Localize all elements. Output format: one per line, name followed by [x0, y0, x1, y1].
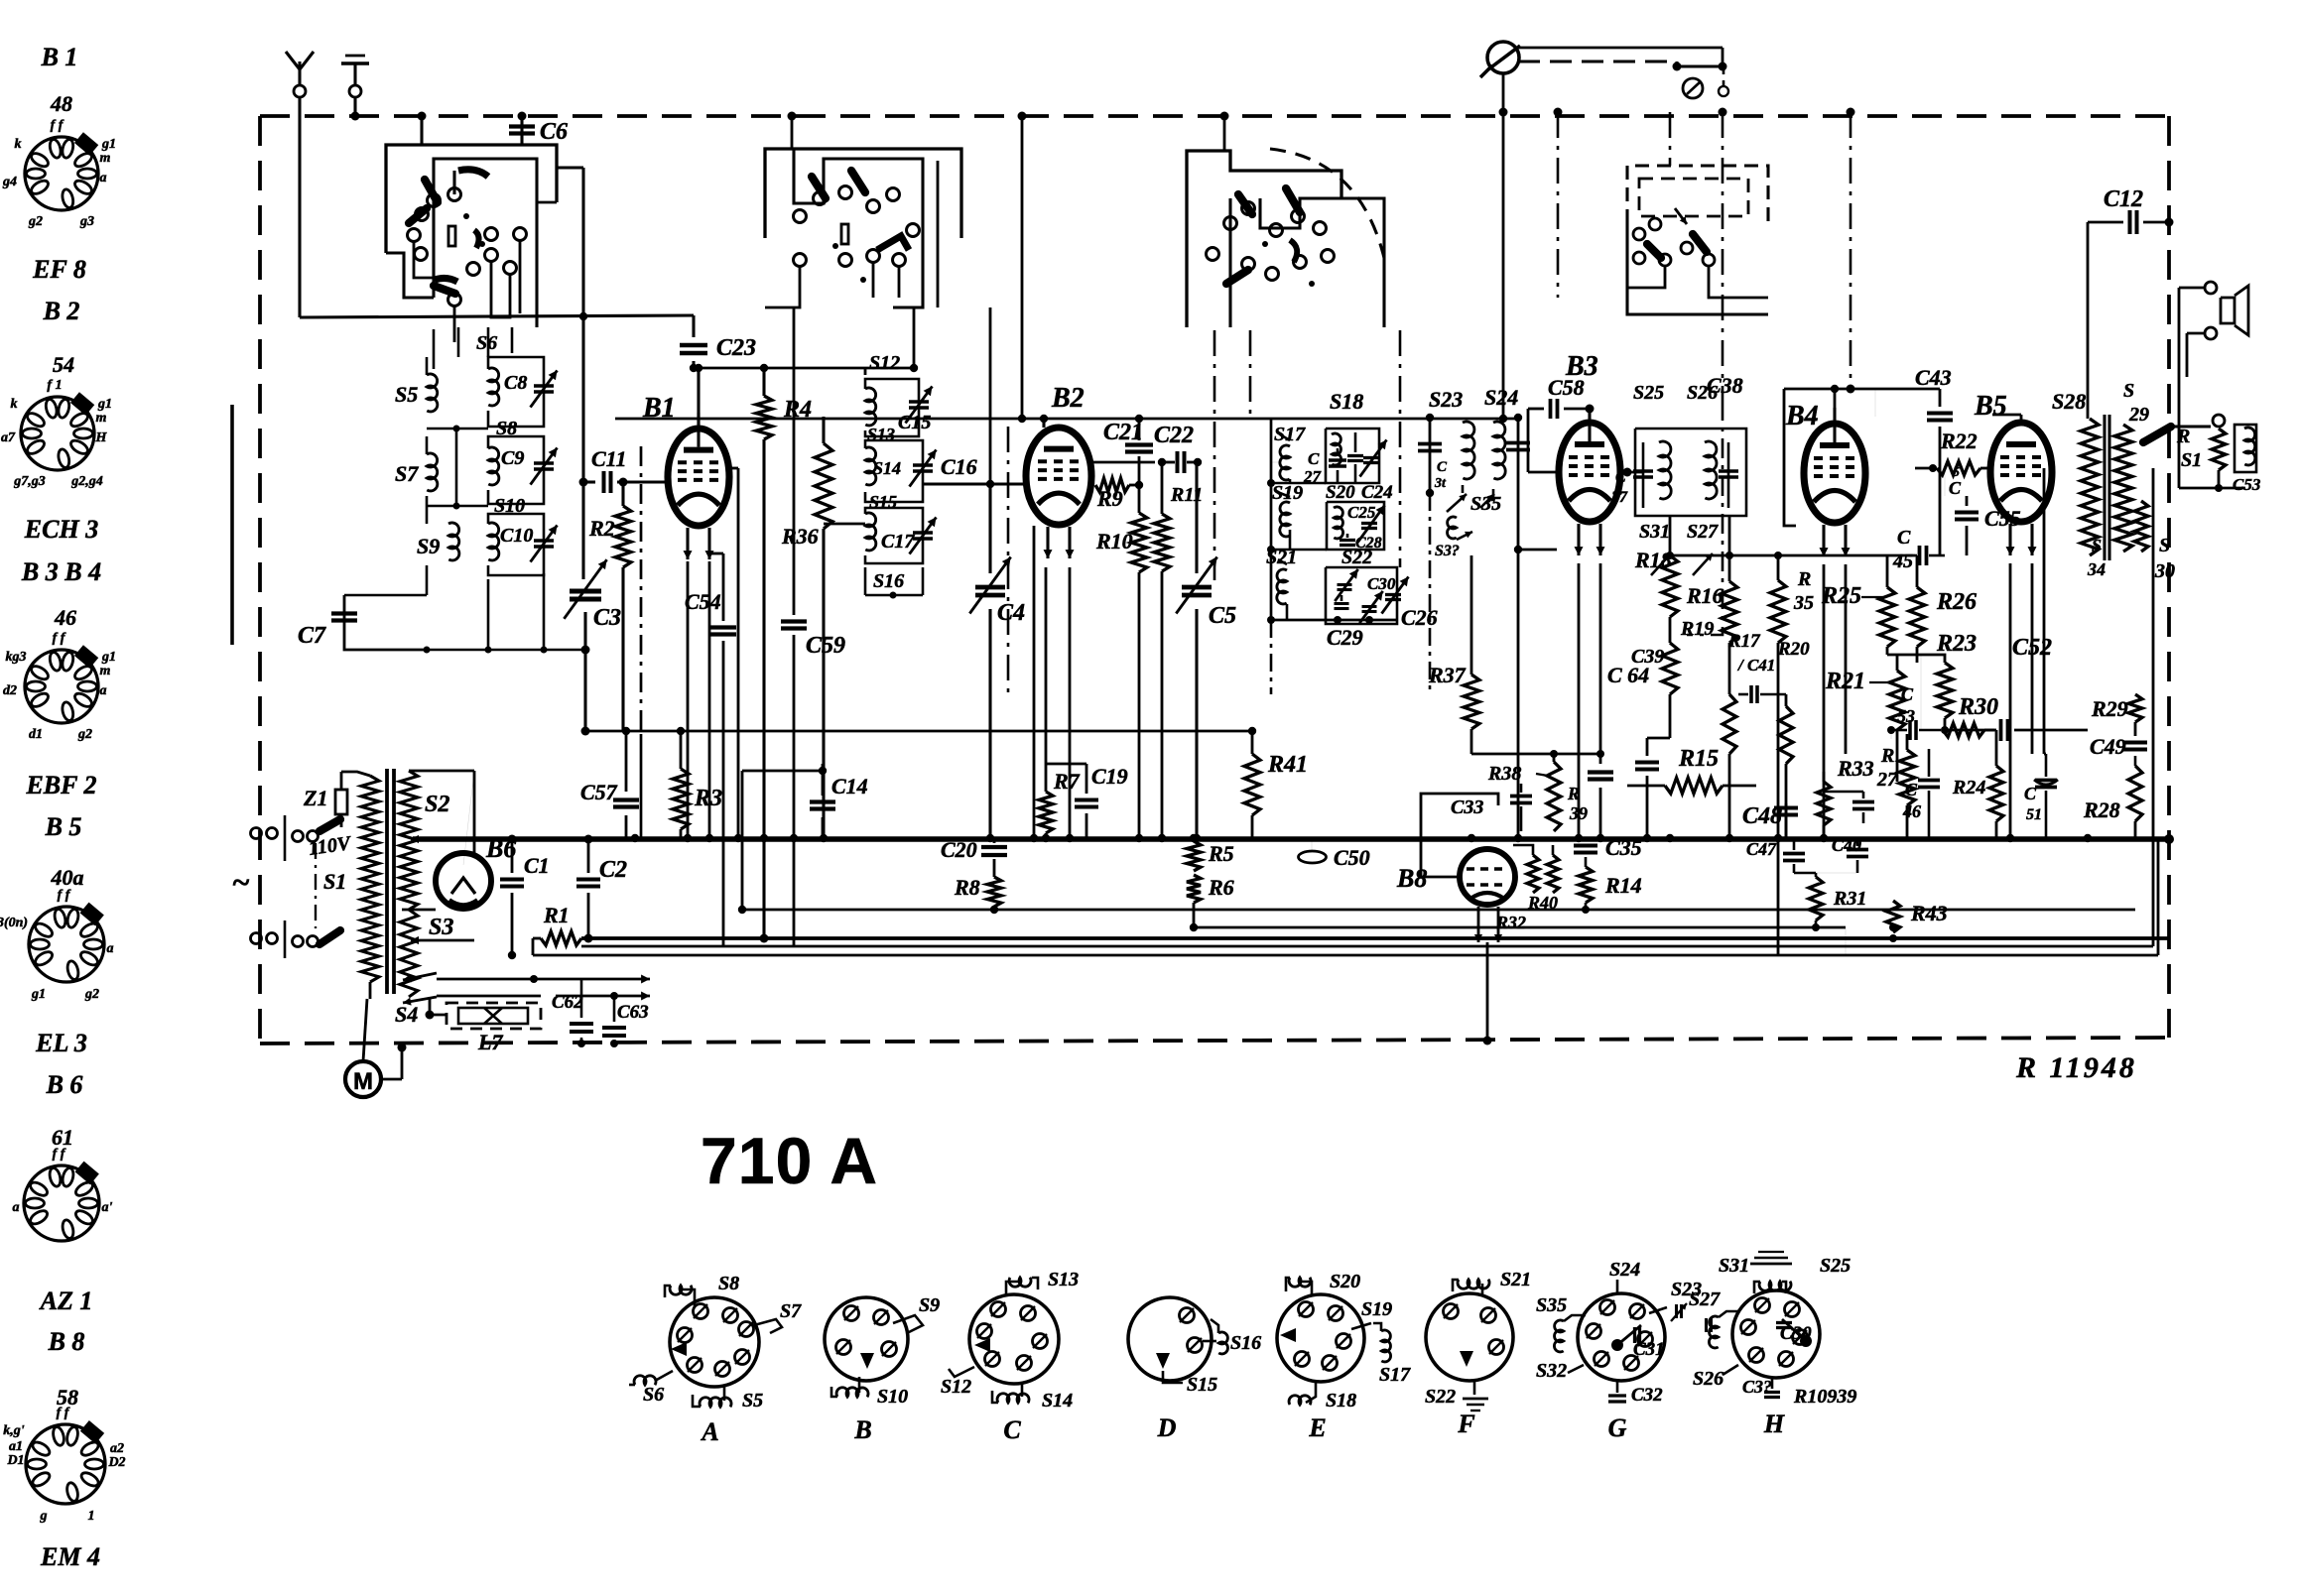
socket F pin arrow: [1460, 1351, 1473, 1367]
resistor R25: [1886, 555, 1889, 587]
socket B coil S10: [858, 1377, 861, 1393]
svg-text:S10: S10: [877, 1386, 908, 1408]
svg-text:S: S: [2092, 536, 2102, 555]
socket C coil S14: [1021, 1383, 1024, 1397]
svg-text:R38: R38: [1487, 763, 1521, 785]
svg-text:B: B: [853, 1415, 871, 1444]
dash-dot drop lines from pickup: [1557, 112, 1560, 298]
svg-text:kg3: kg3: [6, 650, 27, 665]
resistor R15: [1665, 778, 1723, 794]
svg-text:C6: C6: [540, 119, 568, 145]
svg-text:C32: C32: [1631, 1385, 1663, 1406]
svg-text:R31: R31: [1833, 888, 1866, 910]
svg-text:F: F: [1457, 1410, 1474, 1438]
capacitor C52: [1944, 718, 1947, 730]
svg-text:C16: C16: [941, 454, 977, 479]
switch arm flags S-D: [1647, 244, 1661, 258]
svg-text:m: m: [96, 411, 107, 426]
svg-text:D: D: [1157, 1413, 1177, 1442]
capacitor C1: [511, 839, 514, 873]
motor wires: [363, 999, 367, 1061]
svg-text:45: 45: [1892, 551, 1913, 572]
svg-text:S8: S8: [496, 418, 517, 439]
speaker wires: [2179, 287, 2205, 290]
svg-text:B8: B8: [1396, 864, 1427, 893]
socket H coil S27: [1709, 1316, 1719, 1348]
svg-text:40a: 40a: [51, 865, 84, 890]
capacitor C22: [1092, 461, 1155, 464]
svg-text:R19: R19: [1680, 618, 1714, 640]
svg-text:C15: C15: [898, 412, 931, 433]
svg-text:C4: C4: [997, 600, 1025, 626]
capacitor C2: [587, 839, 590, 873]
svg-text:B2: B2: [1051, 383, 1085, 414]
svg-text:R7: R7: [1053, 769, 1081, 794]
svg-text:ECH 3: ECH 3: [24, 515, 98, 544]
wire border to B2: [1021, 116, 1024, 419]
chassis dashed border: [260, 114, 2169, 118]
svg-text:S3?: S3?: [1435, 543, 1460, 559]
svg-text:S35: S35: [1470, 493, 1501, 515]
svg-text:S26: S26: [1693, 1368, 1723, 1390]
svg-text:S17: S17: [1274, 424, 1306, 445]
svg-text:EF 8: EF 8: [32, 255, 86, 284]
fuse Z1: [335, 790, 347, 814]
svg-text:S8: S8: [718, 1273, 739, 1294]
variable capacitor C3: [570, 589, 601, 594]
socket H top coil S25 with screen: [1759, 1282, 1791, 1291]
svg-text:54: 54: [53, 352, 74, 377]
earth wire to chassis: [353, 97, 356, 116]
socket base B1 (48): [25, 137, 98, 210]
svg-text:C23: C23: [716, 335, 756, 361]
svg-text:C1: C1: [524, 853, 550, 878]
output transformer secondary S34: [2134, 501, 2148, 552]
wire border to switch S-B: [791, 116, 794, 149]
svg-text:C: C: [1437, 459, 1448, 475]
switch arm flags S-C: [1238, 194, 1252, 214]
coil S19: [1280, 502, 1290, 537]
coil S17: [1280, 445, 1290, 480]
svg-text:1: 1: [88, 1509, 95, 1524]
svg-text:C14: C14: [831, 774, 868, 798]
oscillator coil box 3 C30 C26: [1326, 567, 1397, 624]
svg-text:C7: C7: [298, 623, 326, 649]
svg-text:S24: S24: [1609, 1259, 1640, 1281]
socket detail C: [969, 1294, 1059, 1384]
svg-text:S12: S12: [869, 352, 900, 374]
svg-text:C19: C19: [1091, 764, 1128, 789]
resistor R26: [1916, 555, 1919, 587]
svg-text:R: R: [1797, 568, 1811, 590]
svg-text:S27: S27: [1689, 1289, 1721, 1310]
svg-text:S: S: [2159, 535, 2170, 556]
svg-text:f f: f f: [57, 1406, 70, 1420]
svg-text:R32: R32: [1495, 913, 1526, 932]
svg-text:5: 5: [1953, 465, 1960, 480]
svg-text:48: 48: [50, 91, 72, 116]
svg-text:R15: R15: [1678, 746, 1719, 772]
coil S9: [448, 523, 459, 560]
svg-text:C53: C53: [2233, 475, 2261, 494]
socket C pin arrow: [974, 1338, 990, 1352]
socket base B8 (58): [26, 1424, 105, 1504]
secondary taps: [409, 770, 474, 773]
svg-text:E: E: [1308, 1413, 1326, 1442]
svg-text:S17: S17: [1379, 1364, 1411, 1386]
wire C3 to bottom: [583, 612, 586, 650]
wire y560 row: [1670, 554, 1915, 557]
heater line 1: [581, 936, 2169, 940]
B8 wire down to chassis: [1486, 942, 1489, 1041]
svg-text:R20: R20: [1777, 639, 1810, 660]
IF coil S26: [1705, 441, 1717, 499]
coil S12 with trimmer C15: [865, 388, 876, 426]
S-D wiring: [1709, 266, 1768, 298]
svg-text:f f: f f: [51, 118, 64, 133]
svg-text:g4: g4: [2, 175, 17, 189]
svg-text:a1: a1: [9, 1439, 23, 1454]
tube B8: [1460, 849, 1515, 905]
misc vertical wires: [582, 315, 585, 317]
resistor R7: [1045, 764, 1048, 792]
capacitor C43: [1939, 389, 1942, 407]
speaker terminals: [2205, 282, 2217, 294]
svg-text:B4: B4: [1785, 401, 1819, 431]
svg-text:C10: C10: [500, 525, 533, 547]
waveband switch unit S-B: [765, 149, 961, 238]
socket A pin arrow: [671, 1342, 687, 1356]
svg-text:d2: d2: [3, 683, 17, 698]
svg-text:R43: R43: [1910, 901, 1948, 925]
svg-text:a: a: [100, 683, 107, 698]
coil block C stub wires: [1280, 434, 1290, 440]
svg-text:g1: g1: [97, 397, 112, 412]
wire top border to switch: [420, 116, 423, 145]
capacitor C63: [613, 996, 616, 1022]
svg-text:R29: R29: [2091, 696, 2128, 721]
coil block C left bus: [1270, 418, 1273, 620]
socket E coil S17: [1381, 1330, 1391, 1362]
svg-text:R8: R8: [954, 875, 980, 900]
resistor R41: [1251, 731, 1254, 754]
capacitor C62: [580, 979, 583, 1018]
svg-text:EL 3: EL 3: [35, 1029, 87, 1057]
svg-text:S5: S5: [395, 382, 418, 407]
svg-text:g3: g3: [79, 214, 94, 229]
svg-text:R10939: R10939: [1793, 1386, 1856, 1408]
svg-text:R22: R22: [1940, 429, 1978, 453]
transformer core: [385, 769, 389, 994]
motor M: [345, 1061, 381, 1097]
svg-text:R33: R33: [1837, 756, 1874, 781]
svg-text:C39: C39: [1631, 646, 1664, 668]
socket B pin arrow: [860, 1353, 874, 1369]
svg-text:EBF 2: EBF 2: [25, 771, 96, 799]
capacitor C50: [1299, 851, 1327, 863]
S31 S27 trimmer arrows: [1651, 553, 1671, 575]
resistor R14: [1579, 867, 1593, 903]
wire pickup to detector: [1502, 112, 1505, 419]
capacitor C11: [583, 480, 595, 483]
socket detail G: [1578, 1293, 1665, 1381]
capacitor C37: [1642, 442, 1645, 508]
tube B1: [668, 429, 729, 526]
resistor R1: [533, 937, 541, 940]
svg-text:C62: C62: [552, 992, 583, 1013]
svg-text:C30: C30: [1780, 1323, 1812, 1344]
svg-text:R17: R17: [1727, 631, 1761, 652]
socket A tab S7: [754, 1319, 782, 1333]
svg-text:S4: S4: [395, 1002, 418, 1027]
svg-text:S6: S6: [643, 1384, 664, 1406]
IF coil S25: [1659, 441, 1671, 499]
svg-text:S18: S18: [1330, 389, 1363, 414]
S23 S24 core dashes: [1429, 493, 1432, 694]
svg-text:g1: g1: [31, 987, 46, 1002]
waveband switch unit S-A: [386, 145, 557, 253]
socket base B2 (54): [21, 397, 94, 470]
svg-text:C5: C5: [1209, 603, 1236, 629]
svg-text:R: R: [1567, 784, 1580, 803]
svg-text:a2: a2: [110, 1441, 124, 1456]
socket G S23 trimmer: [1649, 1307, 1667, 1313]
svg-text:C: C: [1905, 780, 1918, 799]
svg-text:d1: d1: [29, 727, 43, 742]
svg-text:C30: C30: [1367, 574, 1396, 593]
resistor R33: [1823, 772, 1826, 782]
svg-text:S: S: [2123, 380, 2134, 402]
capacitor C6: [520, 116, 523, 145]
coil S6 with trimmer C8: [488, 368, 499, 406]
B4 frame wire: [1784, 389, 1796, 526]
svg-text:B 8: B 8: [48, 1327, 85, 1356]
tube B5: [1990, 423, 2052, 522]
resistor R8: [987, 877, 1001, 907]
B2 cathode wires: [1045, 567, 1048, 764]
dash-dot gang line right: [1850, 112, 1852, 389]
svg-text:g2,g4: g2,g4: [70, 474, 103, 489]
svg-text:30: 30: [2154, 560, 2175, 582]
svg-text:g2: g2: [28, 214, 43, 229]
capacitor C36 (right): [1727, 442, 1730, 508]
socket base B3/B4 (46): [25, 650, 98, 723]
speaker: [2221, 298, 2234, 323]
wire oscillator line: [581, 168, 584, 579]
svg-text:35: 35: [1793, 592, 1814, 614]
long signal wire y422: [615, 418, 1518, 421]
svg-text:g1: g1: [101, 137, 116, 152]
resistor R4: [762, 368, 765, 396]
socket G S24 lead: [1616, 1280, 1619, 1293]
B6 anode wires: [473, 771, 476, 855]
socket E pin arrow: [1280, 1328, 1296, 1342]
svg-text:S31: S31: [1639, 521, 1670, 543]
svg-text:B5: B5: [1974, 391, 2007, 422]
resistor R16: [1728, 516, 1731, 581]
resistor R19: [1669, 635, 1672, 643]
coil S13 S14 with trimmer C16: [865, 447, 876, 485]
capacitor C20: [993, 838, 996, 843]
transformer secondary S3: [400, 910, 418, 997]
socket detail D: [1128, 1297, 1212, 1381]
svg-text:C22: C22: [1154, 423, 1194, 448]
svg-text:S5: S5: [742, 1390, 763, 1412]
socket D pin arrow: [1156, 1353, 1170, 1369]
wire antenna-C23 horizontal: [300, 315, 694, 317]
resistor R2: [621, 482, 624, 506]
svg-text:R26: R26: [1936, 589, 1977, 615]
variable capacitor C4: [989, 307, 992, 484]
socket B tab S9: [893, 1315, 923, 1333]
svg-text:C: C: [1615, 469, 1626, 486]
svg-text:S35: S35: [1536, 1294, 1567, 1316]
svg-text:G: G: [1608, 1413, 1627, 1442]
oscillator coil box 1 S20 C24: [1326, 429, 1379, 483]
svg-text:S16: S16: [873, 570, 904, 592]
svg-text:S12: S12: [941, 1376, 971, 1398]
coil C53 box: [2244, 428, 2255, 465]
socket A coil S8: [683, 1289, 695, 1307]
svg-text:g1: g1: [101, 650, 116, 665]
svg-text:S15: S15: [1187, 1374, 1217, 1396]
svg-text:S25: S25: [1633, 382, 1664, 404]
svg-text:k: k: [15, 137, 22, 152]
svg-text:C49: C49: [2090, 734, 2126, 759]
return line: [533, 954, 2158, 957]
capacitor C35: [1585, 838, 1588, 841]
svg-text:S1: S1: [323, 869, 346, 894]
svg-text:H: H: [1763, 1410, 1785, 1438]
switch unit S-C dashed arc: [1270, 149, 1384, 258]
wire border to switch S-C: [1223, 116, 1226, 151]
svg-text:S32: S32: [1536, 1360, 1567, 1382]
svg-text:S24: S24: [1484, 385, 1518, 410]
waveband switch unit S-C: [1187, 151, 1341, 327]
svg-text:S18: S18: [1326, 1390, 1356, 1412]
svg-text:C8: C8: [504, 372, 527, 394]
coil S8 with trimmer C9: [488, 447, 499, 485]
svg-text:R3: R3: [694, 786, 722, 811]
antenna lead wire: [298, 97, 301, 317]
svg-text:R5: R5: [1208, 841, 1234, 866]
capacitor C21: [1138, 419, 1141, 440]
B1 screen wire: [729, 467, 738, 470]
IF coil S23: [1463, 422, 1474, 479]
svg-text:B 3 B 4: B 3 B 4: [21, 557, 101, 586]
svg-text:B 6: B 6: [46, 1070, 83, 1099]
B3 pin wires: [1578, 563, 1581, 838]
tube B2: [1026, 428, 1091, 525]
B8 frame: [1421, 794, 1498, 843]
svg-text:C35: C35: [1605, 835, 1642, 860]
rectifier tube B6: [436, 853, 491, 909]
svg-text:S3: S3: [429, 915, 453, 940]
svg-text:g: g: [40, 1509, 48, 1524]
coil group B wiring: [864, 567, 867, 595]
svg-text:C9: C9: [501, 447, 524, 469]
resistor R3: [680, 731, 683, 769]
heater bus arrows: [437, 978, 615, 981]
resistor R21: [1896, 655, 1899, 671]
speaker switch S29 arm: [2143, 427, 2171, 442]
svg-text:C2: C2: [599, 857, 627, 883]
switch arm flags S-B: [812, 177, 826, 198]
resistor R18: [1669, 516, 1672, 555]
svg-text:C47: C47: [1746, 839, 1777, 859]
svg-text:C: C: [1308, 449, 1320, 468]
coil S5: [427, 374, 438, 412]
heater winding taps S4: [403, 973, 437, 980]
resistor R36: [822, 417, 825, 443]
svg-text:f f: f f: [53, 631, 66, 646]
svg-text:C26: C26: [1401, 605, 1438, 630]
capacitor C64: [1599, 754, 1602, 764]
coil S15 with trimmer C17: [865, 513, 876, 551]
svg-text:R9: R9: [1096, 486, 1123, 511]
capacitor C12: [2088, 221, 2123, 224]
coil S10 with trimmer C10: [488, 523, 499, 560]
AVC line: [581, 945, 2153, 948]
svg-text:S28: S28: [2052, 389, 2086, 414]
resistor R31: [1815, 873, 1818, 877]
socket A coil S6: [655, 1371, 673, 1381]
capacitor C55: [1966, 496, 1969, 506]
line y935: [1194, 926, 1846, 929]
socket F S22 ground: [1473, 1379, 1476, 1395]
svg-text:R23: R23: [1936, 631, 1977, 657]
svg-text:H: H: [95, 430, 108, 445]
socket E coil S20: [1298, 1282, 1312, 1295]
pickup plug: [1683, 78, 1703, 98]
svg-text:a: a: [107, 941, 114, 956]
svg-text:29: 29: [2128, 404, 2149, 426]
B2 grid cap lead: [1042, 419, 1045, 428]
svg-text:S22: S22: [1341, 547, 1372, 568]
svg-text:C43: C43: [1915, 365, 1952, 390]
wire grid B2: [923, 482, 1026, 485]
svg-text:k: k: [11, 397, 18, 412]
svg-text:a: a: [13, 1200, 20, 1215]
socket detail E: [1277, 1294, 1364, 1382]
svg-text:g7,g3: g7,g3: [13, 474, 46, 489]
variable capacitor C5: [1195, 462, 1198, 573]
svg-text:L7: L7: [477, 1030, 503, 1054]
svg-text:46: 46: [54, 605, 76, 630]
socket A coil S5: [723, 1387, 726, 1401]
svg-text:C: C: [1901, 684, 1914, 704]
speaker return wires: [2178, 472, 2181, 488]
svg-text:a7: a7: [1, 430, 16, 445]
socket C coil S13: [1006, 1282, 1020, 1295]
coil S7: [427, 453, 438, 491]
svg-text:R: R: [2176, 426, 2190, 447]
svg-text:S2: S2: [425, 792, 449, 817]
svg-text:R10: R10: [1095, 529, 1133, 553]
socket detail B: [825, 1297, 908, 1381]
resistor R37: [1470, 555, 1473, 675]
svg-text:m: m: [100, 664, 111, 678]
svg-text:B 1: B 1: [41, 43, 78, 71]
svg-text:EM 4: EM 4: [40, 1542, 100, 1571]
wire IF1 to B3 grid: [1518, 549, 1557, 552]
svg-text:R2: R2: [588, 516, 615, 541]
svg-text:C57: C57: [580, 780, 618, 804]
gang dash-dot line right of box: [1399, 330, 1402, 567]
svg-text:R24: R24: [1952, 777, 1985, 798]
tube B4: [1804, 424, 1865, 523]
socket G centre capacitor C31: [1611, 1339, 1623, 1351]
